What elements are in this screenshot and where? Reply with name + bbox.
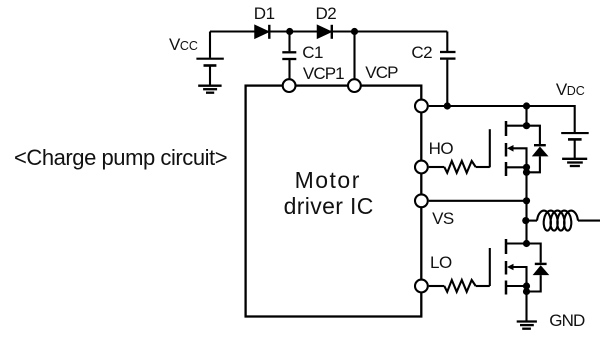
label C1 <box>302 43 323 63</box>
node junction C2-VDC rail <box>444 102 451 109</box>
node A junction D1-C1 <box>286 28 293 35</box>
capacitor C1 <box>282 52 296 59</box>
wire VCC cell to ground <box>209 67 211 86</box>
pin HO terminal circle <box>415 161 428 174</box>
pin VS terminal circle <box>415 194 428 207</box>
node junction Q1 source <box>523 164 530 171</box>
diode D4 body diode of Q2 <box>527 244 550 292</box>
ground VCC <box>198 86 221 93</box>
wire pin HO to R1 <box>429 166 445 168</box>
wire R2 to Q2 gate <box>476 285 490 287</box>
capacitor C2 <box>440 52 456 59</box>
label U1 Motor driver IC line 2 <box>241 193 417 220</box>
transistor Q1 high-side MOSFET <box>490 121 527 176</box>
label D1 <box>254 4 275 24</box>
label pin VS <box>432 209 454 229</box>
op-amp U1 Motor driver IC box <box>246 86 422 317</box>
pin VCP1 terminal circle <box>283 79 296 92</box>
node junction inductor tap <box>522 217 529 224</box>
wire VCC stem <box>209 32 211 58</box>
wire top rail VCC to C2 <box>210 30 447 32</box>
battery VDC cell <box>561 133 589 139</box>
wire Q1 source to Q2 drain <box>525 172 527 243</box>
label VCC supply <box>169 35 198 55</box>
wire inductor to edge <box>578 220 600 222</box>
wire node A to C1 <box>288 32 290 52</box>
label pin LO <box>430 253 452 273</box>
wire C2 stem <box>446 32 448 52</box>
wire Q1 drain drop <box>525 106 527 126</box>
wire C2 to VDC rail <box>446 60 448 106</box>
wire pin LO to R2 <box>429 285 445 287</box>
resistor R2 gate resistor <box>444 280 475 292</box>
diode D1 <box>255 25 269 39</box>
node junction D4 anode return <box>523 288 530 295</box>
wire VS rail <box>429 200 527 202</box>
battery VCC cell <box>196 59 223 66</box>
node junction D3 anode return <box>523 169 530 176</box>
ground VDC <box>562 159 587 166</box>
label C2 <box>411 43 432 63</box>
label pin VCP1 <box>303 64 344 84</box>
label pin HO <box>429 139 454 159</box>
ground GND signal ground <box>517 322 537 329</box>
wire VS node to inductor <box>526 220 537 222</box>
pin VCP terminal circle <box>348 79 361 92</box>
wire VDC rail <box>429 106 575 132</box>
node junction Q2 drain-D4 <box>523 240 530 247</box>
resistor R1 gate resistor <box>444 161 475 173</box>
wire node B to pin VCP <box>353 32 355 79</box>
node junction VS rail <box>523 197 530 204</box>
diode D2 <box>318 25 332 39</box>
wire Q2 source to ground <box>525 292 527 322</box>
wire VDC cell to ground <box>574 141 576 159</box>
label D2 <box>316 4 337 24</box>
node junction Q1 drain-D3 <box>523 122 530 129</box>
label GND net <box>549 311 584 331</box>
label figure title Charge pump circuit <box>14 145 227 171</box>
node B junction D2-VCP <box>351 28 358 35</box>
node junction Q1 drain rail <box>523 102 530 109</box>
inductor L1 motor winding <box>537 211 578 231</box>
label U1 Motor driver IC line 1 <box>239 167 415 194</box>
label VDC supply <box>556 80 585 100</box>
transistor Q2 low-side MOSFET <box>490 239 527 295</box>
label pin VCP <box>365 63 397 83</box>
pin VB terminal circle <box>415 100 428 113</box>
diode D3 body diode of Q1 <box>527 126 549 173</box>
node junction Q2 source <box>523 282 530 289</box>
wire C1 to pin VCP1 <box>288 60 290 78</box>
wire R1 to Q1 gate <box>476 166 490 168</box>
pin LO terminal circle <box>415 280 428 293</box>
